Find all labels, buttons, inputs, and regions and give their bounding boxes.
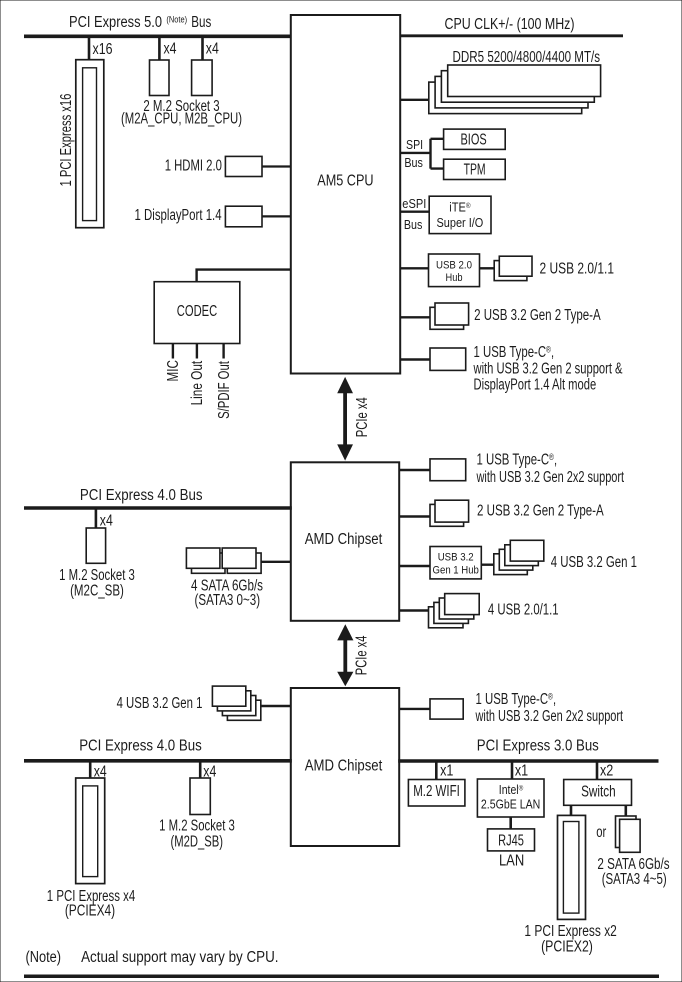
svg-text:Bus: Bus bbox=[404, 217, 423, 232]
wire CODEC to CPU bbox=[197, 270, 291, 282]
wire chipset1 to Type-C 2x2 bbox=[399, 469, 430, 471]
wire CPU to Type-C bbox=[400, 358, 430, 360]
chip USB 2.0 Hub bbox=[429, 254, 480, 287]
wire S/PDIF Out stub bbox=[222, 344, 224, 359]
svg-text:4 USB 3.2 Gen 1: 4 USB 3.2 Gen 1 bbox=[551, 554, 637, 571]
svg-text:with USB 3.2 Gen 2 support &: with USB 3.2 Gen 2 support & bbox=[473, 361, 623, 378]
svg-text:with USB 3.2 Gen 2x2 support: with USB 3.2 Gen 2x2 support bbox=[475, 708, 624, 725]
note bbox=[26, 949, 279, 966]
svg-text:2.5GbE LAN: 2.5GbE LAN bbox=[481, 797, 540, 811]
svg-text:2 USB 2.0/1.1: 2 USB 2.0/1.1 bbox=[540, 261, 615, 278]
svg-text:AMD Chipset: AMD Chipset bbox=[305, 531, 383, 548]
svg-text:(SATA3 4~5): (SATA3 4~5) bbox=[602, 871, 667, 888]
wire hub to USB2 ports bbox=[480, 267, 495, 269]
label 1 USB Type-C (chipset1) bbox=[476, 451, 625, 486]
svg-text:4 USB 2.0/1.1: 4 USB 2.0/1.1 bbox=[488, 602, 559, 619]
svg-text:USB 2.0: USB 2.0 bbox=[436, 260, 472, 272]
bus PCI Express 5.0 bbox=[24, 34, 292, 38]
connector DisplayPort bbox=[225, 206, 262, 227]
svg-text:USB 3.2: USB 3.2 bbox=[438, 552, 474, 564]
chip Switch bbox=[564, 780, 632, 806]
wire Intel LAN stub bbox=[511, 761, 514, 779]
svg-text:1 DisplayPort 1.4: 1 DisplayPort 1.4 bbox=[135, 207, 222, 224]
chip iTE Super I/O bbox=[429, 196, 491, 233]
svg-text:(M2A_CPU, M2B_CPU): (M2A_CPU, M2B_CPU) bbox=[121, 110, 242, 127]
svg-text:PCIe x4: PCIe x4 bbox=[353, 635, 370, 675]
slot PCIEX4 bbox=[76, 778, 105, 884]
connector 4 USB 3.2 Gen 1 stack (left) bbox=[212, 686, 260, 720]
svg-text:LAN: LAN bbox=[499, 852, 524, 869]
slot PCIEX16 bbox=[76, 60, 104, 228]
wire CPU to USB2 hub bbox=[400, 267, 428, 269]
wire SATA to chipset1 bbox=[261, 561, 291, 563]
label 1 USB Type-C (CPU) bbox=[473, 343, 623, 393]
svg-text:or: or bbox=[596, 824, 606, 841]
svg-text:M.2 WIFI: M.2 WIFI bbox=[413, 783, 460, 800]
svg-text:TPM: TPM bbox=[464, 161, 486, 178]
svg-text:AMD Chipset: AMD Chipset bbox=[305, 758, 383, 775]
connector HDMI bbox=[225, 156, 262, 176]
svg-text:x4: x4 bbox=[100, 512, 113, 529]
svg-text:1 M.2 Socket 3: 1 M.2 Socket 3 bbox=[59, 567, 135, 584]
svg-text:DisplayPort 1.4 Alt mode: DisplayPort 1.4 Alt mode bbox=[474, 377, 597, 394]
svg-text:CODEC: CODEC bbox=[177, 303, 217, 320]
svg-text:PCI Express 4.0 Bus: PCI Express 4.0 Bus bbox=[79, 738, 202, 755]
svg-text:2 USB 3.2 Gen 2 Type-A: 2 USB 3.2 Gen 2 Type-A bbox=[474, 307, 601, 324]
svg-text:Bus: Bus bbox=[404, 155, 423, 170]
wire chipset1 to USB2 stack bbox=[399, 609, 428, 611]
connector 4 USB 3.2 Gen 1 stack bbox=[494, 540, 544, 574]
connector RJ45 bbox=[488, 829, 535, 851]
svg-text:Switch: Switch bbox=[581, 783, 616, 800]
svg-text:(PCIEX2): (PCIEX2) bbox=[541, 939, 593, 956]
connector 2 SATA stack bbox=[616, 816, 641, 852]
svg-text:PCI Express 3.0 Bus: PCI Express 3.0 Bus bbox=[477, 738, 599, 755]
svg-text:Hub: Hub bbox=[446, 272, 463, 284]
svg-text:1 M.2 Socket 3: 1 M.2 Socket 3 bbox=[159, 818, 235, 835]
svg-text:Line Out: Line Out bbox=[189, 360, 206, 405]
wire M2A stub bbox=[158, 36, 161, 60]
svg-text:4 USB 3.2 Gen 1: 4 USB 3.2 Gen 1 bbox=[117, 695, 203, 712]
wire Line Out stub bbox=[196, 344, 198, 359]
bus PCI Express 4.0 (bottom) bbox=[24, 759, 292, 763]
wire eSPI to iTE bbox=[400, 210, 429, 212]
svg-text:Actual support may vary by CPU: Actual support may vary by CPU. bbox=[81, 949, 278, 966]
svg-text:x2: x2 bbox=[600, 762, 613, 779]
wire PCIEX4 stub bbox=[89, 761, 92, 778]
svg-text:x1: x1 bbox=[440, 762, 453, 779]
svg-text:x4: x4 bbox=[206, 41, 219, 58]
chip AMD Chipset (2) bbox=[291, 688, 399, 846]
arrow PCIe x4 (CPU-chipset1) bbox=[337, 377, 353, 461]
connector M2D_SB bbox=[190, 778, 210, 815]
svg-text:with USB 3.2 Gen 2x2 support: with USB 3.2 Gen 2x2 support bbox=[476, 469, 625, 486]
connector 2 USB 3.2 Gen 2 stack (chipset1) bbox=[430, 500, 469, 526]
svg-text:CPU CLK+/- (100 MHz): CPU CLK+/- (100 MHz) bbox=[445, 16, 575, 33]
wire chipset1 to Gen2 Type-A bbox=[399, 515, 430, 517]
svg-text:PCIe x4: PCIe x4 bbox=[354, 397, 371, 437]
svg-text:(Note): (Note) bbox=[166, 15, 187, 25]
wire x16 stub bbox=[88, 36, 91, 60]
wire Switch stub bbox=[596, 761, 599, 780]
svg-text:(PCIEX4): (PCIEX4) bbox=[65, 903, 115, 920]
svg-text:(M2C_SB): (M2C_SB) bbox=[70, 583, 124, 600]
arrow PCIe x4 (chipset1-chipset2) bbox=[337, 624, 353, 686]
svg-text:eSPI: eSPI bbox=[402, 196, 426, 211]
svg-text:1 USB Type-C®,: 1 USB Type-C®, bbox=[474, 343, 555, 360]
wire M2C stub bbox=[95, 508, 98, 528]
svg-text:x4: x4 bbox=[164, 41, 177, 58]
label 1 USB Type-C (chipset2) bbox=[475, 690, 624, 725]
svg-text:S/PDIF Out: S/PDIF Out bbox=[216, 361, 233, 419]
connector 4 SATA stack bbox=[186, 548, 261, 573]
svg-text:(SATA3 0~3): (SATA3 0~3) bbox=[195, 592, 261, 609]
svg-text:1 USB Type-C®,: 1 USB Type-C®, bbox=[476, 690, 557, 707]
svg-text:PCI Express 5.0: PCI Express 5.0 bbox=[69, 14, 162, 31]
connector USB Type-C (chipset1) bbox=[430, 459, 466, 481]
svg-text:2 USB 3.2 Gen 2 Type-A: 2 USB 3.2 Gen 2 Type-A bbox=[477, 503, 604, 520]
wire CPU to USB3.2 Gen2 bbox=[400, 316, 430, 318]
chip CODEC bbox=[154, 282, 240, 344]
chip TPM bbox=[444, 159, 506, 179]
svg-text:BIOS: BIOS bbox=[461, 131, 487, 148]
svg-text:(M2D_SB): (M2D_SB) bbox=[171, 833, 224, 850]
connector 4 USB 2.0 stack (chipset1) bbox=[429, 594, 480, 628]
wire chipset1 to Gen1 hub bbox=[399, 565, 430, 567]
svg-text:SPI: SPI bbox=[406, 137, 423, 152]
svg-text:x1: x1 bbox=[515, 762, 528, 779]
chip AMD Chipset (1) bbox=[291, 462, 399, 621]
chip M.2 WIFI bbox=[408, 780, 465, 807]
wire Gen1 hub to stack bbox=[481, 564, 494, 566]
wire M2D stub bbox=[199, 761, 202, 778]
wire LAN to RJ45 bbox=[509, 817, 512, 829]
wire Gen1 stack to chipset2 bbox=[261, 705, 291, 707]
wire SPI bus bracket bbox=[400, 139, 443, 169]
connector 2 USB 3.2 Gen 2 stack bbox=[430, 303, 469, 329]
svg-text:PCI Express 4.0 Bus: PCI Express 4.0 Bus bbox=[80, 487, 203, 504]
connector 2 USB 2.0 stack bbox=[494, 256, 532, 280]
svg-text:1 HDMI 2.0: 1 HDMI 2.0 bbox=[165, 158, 222, 175]
svg-text:MIC: MIC bbox=[165, 360, 182, 381]
svg-text:1 PCI Express x16: 1 PCI Express x16 bbox=[58, 94, 75, 187]
connector DDR5 DIMM stack bbox=[429, 65, 601, 114]
wire DisplayPort to CPU bbox=[262, 215, 291, 217]
rule bottom bbox=[24, 974, 659, 978]
chip BIOS bbox=[444, 129, 506, 149]
wire DDR5 to CPU bbox=[400, 99, 430, 101]
wire MIC stub bbox=[172, 344, 174, 359]
label PCI Express 5.0 (Note) Bus bbox=[69, 14, 212, 31]
svg-text:x16: x16 bbox=[93, 41, 113, 58]
wire HDMI to CPU bbox=[262, 165, 291, 167]
wire Switch to PCIEX2 bbox=[570, 805, 573, 815]
connector USB Type-C (chipset2) bbox=[430, 699, 463, 719]
connector M2A_CPU bbox=[150, 60, 170, 96]
svg-text:Gen 1 Hub: Gen 1 Hub bbox=[433, 564, 479, 576]
wire Switch to SATA bbox=[624, 805, 627, 816]
chip AM5 CPU bbox=[291, 15, 400, 374]
svg-text:RJ45: RJ45 bbox=[498, 833, 524, 850]
connector USB Type-C (CPU) bbox=[430, 348, 466, 370]
svg-text:DDR5 5200/4800/4400 MT/s: DDR5 5200/4800/4400 MT/s bbox=[453, 49, 601, 66]
connector M2C_SB bbox=[86, 528, 105, 563]
bus PCI Express 3.0 bbox=[398, 759, 658, 763]
svg-text:AM5 CPU: AM5 CPU bbox=[317, 173, 373, 190]
svg-text:Super I/O: Super I/O bbox=[437, 215, 484, 230]
svg-text:Bus: Bus bbox=[191, 14, 211, 31]
svg-text:1 PCI Express x2: 1 PCI Express x2 bbox=[524, 923, 617, 940]
bus PCI Express 4.0 (middle) bbox=[24, 506, 292, 510]
wire chipset2 to Type-C bbox=[399, 708, 430, 710]
wire M.2 WIFI stub bbox=[435, 761, 438, 780]
wire CPU CLK bbox=[400, 34, 623, 37]
svg-text:1 USB Type-C®,: 1 USB Type-C®, bbox=[477, 451, 558, 468]
svg-text:(Note): (Note) bbox=[26, 949, 62, 966]
chip Intel 2.5GbE LAN bbox=[477, 779, 544, 817]
chip USB 3.2 Gen 1 Hub bbox=[430, 547, 481, 579]
wire M2B stub bbox=[201, 36, 204, 60]
slot PCIEX2 bbox=[558, 815, 586, 919]
connector M2B_CPU bbox=[192, 60, 213, 96]
